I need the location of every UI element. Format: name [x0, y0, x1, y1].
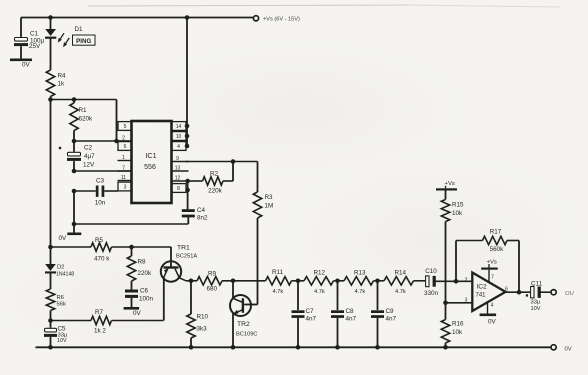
svg-text:R2: R2: [210, 171, 219, 178]
svg-text:C5: C5: [58, 326, 67, 333]
svg-text:R7: R7: [95, 309, 104, 316]
svg-text:10V: 10V: [57, 338, 67, 344]
resistor R11: [266, 269, 305, 295]
svg-text:BC109C: BC109C: [236, 332, 258, 338]
resistor R4: [46, 70, 66, 97]
svg-text:6: 6: [124, 144, 127, 150]
svg-text:3: 3: [465, 298, 468, 304]
svg-text:470 k: 470 k: [94, 256, 110, 263]
svg-text:0V: 0V: [22, 62, 31, 69]
svg-text:12V: 12V: [83, 162, 95, 169]
svg-text:8n2: 8n2: [197, 215, 208, 222]
svg-text:14: 14: [176, 124, 182, 130]
svg-text:560k: 560k: [490, 246, 505, 253]
svg-text:C1: C1: [30, 31, 39, 38]
svg-text:2: 2: [465, 278, 468, 284]
capacitor C9: [371, 279, 397, 348]
op-amp IC2 741: [465, 273, 509, 312]
svg-text:9: 9: [176, 156, 179, 162]
svg-text:4n7: 4n7: [306, 316, 317, 323]
resistor R15: [441, 191, 464, 303]
svg-text:620k: 620k: [79, 116, 94, 123]
wire: TR2 emitter to ground: [232, 314, 234, 348]
svg-text:33µ: 33µ: [531, 300, 541, 306]
svg-text:R3: R3: [265, 194, 274, 201]
wire: pin 7 net: [72, 169, 132, 174]
wire: C4 return to ground: [74, 223, 188, 225]
resistor R2: [187, 162, 233, 195]
svg-text:C3: C3: [96, 178, 105, 185]
resistor R5: [51, 237, 172, 263]
svg-text:25V: 25V: [29, 43, 41, 50]
svg-text:220k: 220k: [208, 188, 223, 195]
label PING: [73, 35, 96, 45]
svg-text:OU: OU: [565, 291, 575, 297]
supply symbol +Vs for R15: [436, 181, 457, 191]
capacitor C7: [292, 279, 317, 348]
terminal 0V: [551, 345, 572, 353]
svg-text:TR1: TR1: [177, 245, 190, 252]
svg-text:C10: C10: [425, 268, 437, 275]
capacitor C2: [59, 141, 95, 171]
svg-text:100n: 100n: [139, 296, 154, 303]
svg-text:R11: R11: [272, 269, 284, 276]
svg-text:R14: R14: [395, 270, 407, 277]
resistor R13: [344, 270, 384, 296]
svg-text:C6: C6: [140, 288, 149, 295]
ground below C6: [124, 307, 142, 317]
svg-text:10: 10: [176, 134, 182, 140]
op IC1 556 timer: [118, 121, 189, 203]
svg-text:4: 4: [177, 144, 180, 150]
svg-text:R12: R12: [314, 270, 326, 277]
resistor R8: [127, 245, 152, 290]
svg-text:R6: R6: [57, 295, 64, 301]
capacitor C8: [331, 279, 357, 348]
wire: op-amp output: [506, 291, 531, 293]
svg-text:+Vs (6V - 15V): +Vs (6V - 15V): [263, 17, 300, 23]
terminal +Vs supply: [253, 16, 300, 23]
capacitor C6: [125, 288, 154, 308]
svg-text:556: 556: [144, 164, 156, 171]
wire: 0V ground rail: [36, 345, 551, 350]
resistor R6: [46, 274, 66, 321]
capacitor C3: [72, 178, 118, 207]
ground below C1: [10, 59, 32, 69]
svg-text:4µ7: 4µ7: [84, 153, 95, 160]
svg-text:IC1: IC1: [145, 151, 156, 160]
svg-text:0V: 0V: [488, 319, 497, 326]
wire: left branch vertical: [48, 97, 53, 265]
svg-text:C9: C9: [386, 308, 395, 315]
svg-text:1M: 1M: [265, 203, 274, 210]
svg-text:1N4148: 1N4148: [56, 271, 74, 277]
resistor R9: [186, 270, 266, 292]
svg-text:1: 1: [122, 155, 125, 161]
svg-text:R17: R17: [490, 229, 502, 236]
svg-text:R4: R4: [58, 73, 67, 80]
supply symbol +Vs for IC2 pin 7: [481, 260, 498, 282]
svg-text:56k: 56k: [57, 302, 66, 308]
svg-text:3: 3: [124, 185, 127, 191]
svg-text:13: 13: [175, 165, 181, 171]
svg-text:10k: 10k: [452, 329, 463, 336]
transistor TR2 BC109C: [230, 279, 258, 338]
svg-text:4.7k: 4.7k: [314, 289, 325, 295]
svg-text:C11: C11: [531, 281, 543, 288]
svg-text:7: 7: [491, 275, 494, 281]
svg-text:741: 741: [475, 293, 486, 299]
svg-text:1k: 1k: [58, 81, 66, 88]
svg-text:BC251A: BC251A: [176, 254, 197, 260]
svg-text:0V: 0V: [133, 310, 142, 317]
resistor R14: [384, 270, 425, 296]
resistor R10: [187, 281, 209, 348]
ground 0V node: [59, 233, 82, 243]
svg-text:+Vs: +Vs: [487, 260, 497, 266]
wire: C2/C3/C4 ground stem: [72, 191, 77, 233]
svg-text:C4: C4: [197, 207, 206, 214]
svg-text:D1: D1: [75, 26, 84, 33]
terminal OUT: [551, 290, 575, 297]
capacitor C4: [182, 207, 208, 224]
svg-text:330n: 330n: [424, 290, 439, 297]
svg-text:11: 11: [121, 175, 126, 181]
svg-text:220k: 220k: [138, 270, 153, 277]
svg-text:1k 2: 1k 2: [94, 328, 106, 335]
svg-text:10V: 10V: [531, 306, 541, 312]
svg-text:R5: R5: [95, 237, 104, 244]
capacitor C11: [526, 281, 551, 313]
svg-text:R16: R16: [452, 321, 464, 328]
svg-text:3k3: 3k3: [197, 326, 208, 333]
svg-text:R9: R9: [208, 270, 217, 277]
wire: pin 9 net: [186, 159, 258, 164]
svg-text:PING: PING: [76, 38, 91, 45]
svg-text:IC2: IC2: [476, 284, 487, 291]
capacitor C1: [14, 18, 45, 59]
svg-text:680: 680: [207, 286, 218, 293]
svg-text:R13: R13: [354, 270, 366, 277]
svg-text:4.7k: 4.7k: [355, 289, 366, 295]
svg-text:TR2: TR2: [237, 321, 250, 328]
svg-text:D2: D2: [57, 264, 64, 270]
svg-text:4.7k: 4.7k: [395, 289, 406, 295]
svg-text:4n7: 4n7: [386, 316, 397, 323]
svg-text:R1: R1: [79, 107, 88, 114]
svg-text:10k: 10k: [452, 210, 463, 217]
wire: pins 14/10/4 to +V rail: [185, 18, 190, 149]
svg-text:4.7k: 4.7k: [273, 289, 284, 295]
ground for IC2 pin 4: [480, 302, 497, 326]
resistor R7: [51, 309, 164, 335]
svg-text:R8: R8: [138, 259, 147, 266]
svg-text:R15: R15: [452, 202, 464, 209]
svg-text:C2: C2: [84, 145, 93, 152]
svg-text:C8: C8: [346, 308, 355, 315]
svg-text:8: 8: [177, 186, 180, 192]
svg-text:R10: R10: [197, 314, 209, 321]
svg-text:0V: 0V: [59, 235, 68, 242]
svg-text:5: 5: [124, 124, 127, 130]
svg-text:12: 12: [175, 175, 181, 181]
LED D1: [45, 18, 83, 71]
capacitor C10: [424, 268, 472, 297]
resistor R3: [245, 162, 273, 305]
svg-text:4: 4: [491, 303, 494, 309]
svg-text:4n7: 4n7: [346, 316, 357, 323]
wire: pin 12/8 node: [185, 179, 190, 210]
svg-text:10n: 10n: [95, 200, 106, 207]
wire: +V supply rail: [21, 15, 253, 20]
capacitor C5: [44, 318, 68, 347]
diode D2 1N4148: [45, 264, 74, 277]
resistor R16: [441, 301, 464, 350]
wire: pin 2 net: [72, 139, 132, 144]
wire: TR1 emitter to R7: [163, 278, 165, 321]
wire: op-amp pin 3 net: [446, 298, 473, 304]
svg-text:0V: 0V: [565, 347, 572, 353]
resistor R17: [454, 229, 522, 295]
svg-text:C7: C7: [306, 308, 315, 315]
resistor R12: [304, 270, 344, 296]
wire: junction to pin 5 route: [51, 100, 117, 142]
resistor R1: [70, 97, 93, 141]
transistor TR1 BC251A: [161, 245, 198, 282]
